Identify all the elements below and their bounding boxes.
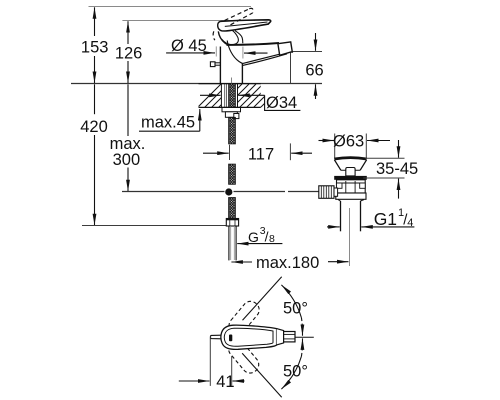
- label 420: [80, 118, 108, 136]
- deck/counter top line: [71, 83, 322, 85]
- lower 50 deg arc: [281, 338, 302, 389]
- label G1 1/4 with leader arrows: [327, 207, 414, 229]
- handle outline solid: [221, 325, 277, 349]
- dimension 66: [291, 33, 322, 99]
- handle collar: [277, 329, 284, 345]
- svg-text:G1: G1: [374, 209, 397, 229]
- svg-text:35-45: 35-45: [376, 160, 418, 178]
- dimension 117: [203, 143, 312, 160]
- lower 50 deg ray: [242, 353, 282, 397]
- svg-text:max.180: max.180: [256, 254, 319, 272]
- svg-text:/: /: [265, 229, 269, 245]
- handle stem: [284, 332, 295, 342]
- dashed handle ghost rotated up 50deg: [226, 298, 263, 337]
- threaded shank: [229, 84, 236, 108]
- svg-text:Ø 45: Ø 45: [171, 37, 207, 55]
- label 50 deg lower: [283, 362, 308, 380]
- mounting washer: [222, 107, 241, 111]
- hose tubes in hole: [224, 84, 226, 107]
- dashed raised handle: [213, 8, 253, 40]
- hose end tube: [229, 226, 236, 260]
- dimension max.180: [231, 261, 348, 263]
- svg-text:50°: 50°: [283, 362, 308, 380]
- svg-text:max.45: max.45: [141, 114, 195, 132]
- faucet body column: [220, 41, 243, 84]
- stem centerline: [295, 336, 314, 338]
- svg-text:4: 4: [407, 217, 413, 229]
- label 50 deg upper: [283, 300, 308, 318]
- svg-text:Ø34: Ø34: [266, 94, 297, 112]
- reference line solid-handle top level: [122, 20, 255, 22]
- pop-up rod horizontal line: [122, 191, 319, 193]
- threaded hose bundle lower: [229, 164, 236, 184]
- svg-text:66: 66: [305, 62, 323, 80]
- svg-text:117: 117: [248, 145, 274, 163]
- lever handle (solid): [221, 20, 271, 44]
- svg-text:126: 126: [115, 44, 143, 62]
- svg-text:Ø63: Ø63: [333, 132, 364, 150]
- extension line for 420 bottom (hose end): [82, 225, 226, 227]
- hose end nut G3/8: [226, 219, 238, 227]
- label max.45 with leader: [139, 109, 200, 132]
- label 126: [115, 44, 143, 62]
- label Ø34: [266, 94, 297, 112]
- valve lift-rod guide plug: [346, 168, 355, 176]
- pop-up waste valve: Ø63 dimension: [319, 134, 391, 159]
- label max.180: [256, 254, 319, 272]
- valve flange dome: [334, 158, 366, 171]
- label 41: [216, 373, 234, 391]
- outlet vertical extension line: [290, 52, 292, 83]
- valve tailpipe: [341, 201, 361, 266]
- reference line top (dashed-handle tip level): [89, 6, 252, 8]
- dimension Ø34 arrows: [200, 95, 300, 110]
- label 117: [248, 145, 274, 163]
- rod knurled connector: [319, 186, 338, 199]
- pop-up actuator knob: [210, 62, 220, 67]
- svg-text:50°: 50°: [283, 300, 308, 318]
- valve seat washer (dark band): [334, 176, 367, 180]
- aerator block: [278, 42, 292, 55]
- svg-text:G: G: [248, 229, 259, 245]
- label Ø63: [333, 132, 364, 150]
- label Ø45 with leader arrow: [166, 37, 267, 59]
- deck hatch block: [193, 84, 284, 112]
- handle tip tab: [211, 335, 222, 339]
- faucet below-deck hardware: [221, 84, 237, 108]
- svg-text:153: 153: [81, 39, 109, 57]
- label 153: [81, 39, 109, 57]
- label 35-45: [376, 160, 418, 178]
- upper 50 deg arc: [281, 285, 302, 336]
- faucet spout: [227, 43, 288, 65]
- svg-text:420: 420: [80, 118, 108, 136]
- mounting nut: [225, 112, 239, 119]
- svg-text:41: 41: [216, 373, 234, 391]
- dimension 126 with max.300 (shared vertical line x=128): [127, 21, 129, 191]
- svg-text:300: 300: [113, 151, 141, 169]
- cartridge cap: [218, 21, 239, 44]
- dashed handle ghost rotated down 50deg: [225, 337, 262, 376]
- rod ball joint: [225, 188, 232, 195]
- valve body: [336, 180, 366, 201]
- threaded hose bundle upper: [229, 117, 236, 144]
- dimension 41: [179, 336, 245, 386]
- upper 50 deg ray: [243, 277, 282, 321]
- label G 3/8 with leader: [237, 225, 282, 245]
- threaded rod below ball: [229, 198, 236, 219]
- label max.300: [110, 135, 146, 169]
- dimension 35-45: [363, 140, 404, 199]
- hole edges: [220, 84, 222, 108]
- handle dark mark: [229, 335, 232, 342]
- dimension 153 with 420 (shared vertical line x=94.4): [94, 7, 96, 225]
- label 66: [305, 62, 323, 80]
